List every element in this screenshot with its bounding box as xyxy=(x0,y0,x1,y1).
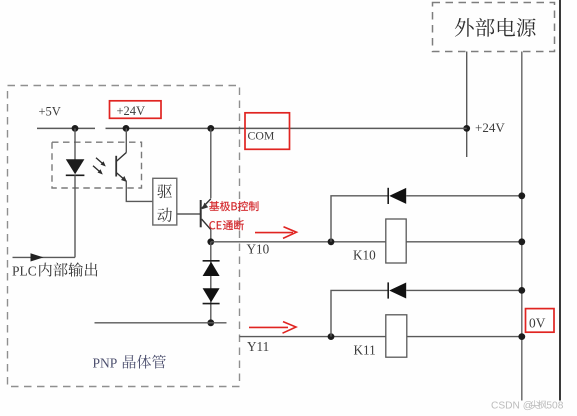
wire: K10 freewheel branch left xyxy=(331,196,388,242)
wire: Y11 output rail xyxy=(240,336,522,338)
label: 外部电源 (external power) xyxy=(455,18,536,37)
rightmost vertical wire (black) xyxy=(559,0,561,401)
phototransistor xyxy=(116,128,127,182)
highlight box around +24V xyxy=(110,101,162,119)
wire: D2 to 0V bus xyxy=(406,289,522,291)
wire A: +24V drop from external supply xyxy=(466,52,468,158)
optocoupler dashed outline xyxy=(52,142,142,188)
wire: LED anode xyxy=(74,128,76,159)
label: PLC内部输出 xyxy=(12,262,97,278)
freewheel diode D2 xyxy=(388,282,406,298)
watermark xyxy=(491,400,564,411)
svg-text:+5V: +5V xyxy=(39,105,61,119)
relay coil K10 xyxy=(386,219,406,263)
relay coil K11 xyxy=(386,315,407,357)
PNP transistor Q1 xyxy=(201,199,211,230)
wire: emitter to driver xyxy=(126,181,153,201)
PLC internal output dashed enclosure xyxy=(8,86,240,387)
highlight box around COM xyxy=(245,113,290,150)
node: PNP emitter junction xyxy=(207,125,214,132)
diode D4 (cathode down) xyxy=(203,288,220,303)
highlight box around 0V xyxy=(526,309,555,333)
svg-text:0V: 0V xyxy=(529,315,546,330)
svg-text:K11: K11 xyxy=(354,342,376,357)
node: Y10/diode branch junction xyxy=(328,238,335,245)
label: PNP晶体管 xyxy=(93,355,166,371)
node: next-channel stub junction xyxy=(207,319,214,326)
label: 驱动 (drive) xyxy=(157,184,172,198)
svg-text:+24V: +24V xyxy=(475,120,505,135)
wire B: 0V bus from external supply xyxy=(521,52,523,401)
wire: driver output to base xyxy=(177,213,201,215)
wire: collector to Y10 xyxy=(210,230,212,242)
node: 0V bus / D2 xyxy=(518,287,525,294)
svg-text:508: 508 xyxy=(546,400,563,411)
svg-text:PLC: PLC xyxy=(12,263,37,278)
label: CE通断 (CE on/off) xyxy=(209,220,243,230)
node: Y10 collector junction xyxy=(207,238,214,245)
red arrow (Y10 current path) xyxy=(255,227,297,239)
wire: next-channel stub xyxy=(95,322,227,324)
wire: internal output feed with arrow xyxy=(13,253,76,261)
red arrow (Y11 current path) xyxy=(249,322,296,334)
wire: D1 to 0V bus xyxy=(406,195,522,197)
svg-text:Y11: Y11 xyxy=(247,339,269,354)
node: LED supply junction xyxy=(72,125,79,132)
svg-text:+24V: +24V xyxy=(117,104,146,118)
driver block U2 xyxy=(153,178,177,225)
svg-text:PNP: PNP xyxy=(93,355,118,370)
wire: Y10 output rail xyxy=(211,241,522,243)
wire: +5V rail segment xyxy=(37,127,95,129)
wire: LED cathode down xyxy=(74,175,76,257)
wire: COM/+24V rail xyxy=(106,127,467,129)
node: 0V bus / D1 xyxy=(518,192,525,199)
label: 基极B控制 (base B control) xyxy=(209,201,258,211)
node: Y11/diode branch junction xyxy=(328,333,335,340)
diode D3 (cathode up) xyxy=(203,261,220,276)
node: 0V bus / Y10 xyxy=(518,238,525,245)
freewheel diode D1 xyxy=(388,188,406,204)
node: +24V junction xyxy=(463,125,470,132)
svg-text:Y10: Y10 xyxy=(247,241,270,256)
light emission arrows xyxy=(93,158,106,175)
svg-text:COM: COM xyxy=(248,129,275,143)
node: phototransistor collector junction xyxy=(123,125,130,132)
wire: emitter drop xyxy=(210,128,212,198)
svg-text:K10: K10 xyxy=(353,248,376,263)
node: 0V bus / Y11 xyxy=(518,333,525,340)
zener pair: wire from Y10 node down xyxy=(210,242,212,323)
LED (input diode) xyxy=(66,159,85,175)
wire: K11 freewheel branch left xyxy=(331,290,388,336)
external power supply box (dashed) xyxy=(433,3,555,52)
svg-text:CSDN @: CSDN @ xyxy=(491,400,533,411)
